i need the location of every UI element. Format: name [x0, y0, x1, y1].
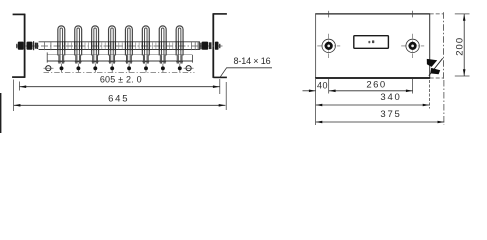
bottom extension lines right view: [316, 79, 444, 125]
dimension 645 extension lines: [14, 80, 227, 112]
plate outline: [315, 14, 430, 78]
left bracket: [12, 14, 25, 78]
svg-text:375: 375: [380, 109, 401, 120]
rod thread ticks right: [192, 41, 199, 50]
svg-text:200: 200: [454, 37, 465, 56]
bottom busbar plate: [47, 52, 192, 62]
spacer ticks gap 6: [153, 42, 156, 49]
screw S4: [110, 64, 114, 73]
dimension 40/260 line: [303, 90, 413, 93]
corner weld symbol: [427, 58, 443, 75]
svg-text:8-14 × 16: 8-14 × 16: [234, 56, 271, 66]
screw S8: [178, 64, 182, 73]
svg-text:260: 260: [366, 80, 386, 91]
terminal block E4: [109, 55, 116, 64]
left terminal washers: [34, 41, 38, 50]
left terminal nuts: [16, 42, 37, 50]
element loop E7: [159, 26, 166, 56]
terminal block E6: [142, 55, 149, 64]
spacer ticks gap 3: [102, 42, 105, 49]
terminal block E3: [92, 55, 99, 64]
spacer ticks gap 1: [68, 42, 72, 49]
hole H1: [317, 11, 340, 58]
scan artifact left edge: [0, 93, 1, 133]
terminal block E1: [58, 55, 65, 64]
spacer ticks gap 4: [119, 42, 122, 49]
spacer ticks gap 2: [85, 42, 88, 49]
mounting hole right (open circle): [184, 66, 194, 71]
dimension 605 extension lines: [20, 79, 220, 94]
right terminal nuts: [202, 42, 221, 50]
element loop E5: [125, 26, 132, 56]
right terminal washers: [199, 41, 201, 50]
svg-text:605 ± 2. 0: 605 ± 2. 0: [100, 74, 142, 84]
phantom extension edges: [430, 12, 444, 79]
svg-text:645: 645: [108, 93, 129, 104]
spacer ticks gap 7: [169, 42, 172, 49]
terminal block E8: [176, 55, 183, 64]
element loop E1: [58, 26, 65, 56]
element loop E8: [176, 26, 183, 56]
dimension 375 line: [316, 121, 445, 124]
screw S2: [76, 64, 80, 73]
element loop E4: [109, 26, 116, 56]
dimension 645 line: [14, 104, 226, 107]
dimension 605 line: [20, 85, 220, 88]
terminal block E7: [159, 55, 166, 64]
rod centerline: [16, 45, 223, 47]
nameplate: [354, 36, 389, 49]
screw S6: [144, 64, 148, 73]
svg-text:40: 40: [317, 80, 328, 90]
screw S7: [161, 64, 165, 73]
terminal block E2: [75, 55, 82, 64]
leader 8-14x16: [220, 68, 272, 78]
mounting hole left (open circle): [44, 66, 54, 71]
element loop E2: [75, 26, 82, 56]
rod thread ticks left: [44, 41, 51, 50]
dimension 340 line: [316, 104, 430, 107]
spacer ticks gap 5: [136, 42, 139, 49]
dimension 200 extension ticks: [455, 14, 470, 76]
right bracket: [213, 13, 227, 78]
screw S3: [93, 64, 97, 73]
hole H2: [401, 11, 424, 58]
bottom holes dash-dot centerline: [44, 71, 195, 73]
svg-text:340: 340: [380, 92, 401, 103]
element loop E3: [92, 26, 99, 56]
dimension 200 line: [463, 14, 466, 76]
element loop E6: [142, 26, 149, 56]
screw S1: [60, 64, 64, 73]
terminal block E5: [126, 55, 133, 64]
support rod: [39, 42, 200, 50]
screw S5: [127, 64, 131, 73]
